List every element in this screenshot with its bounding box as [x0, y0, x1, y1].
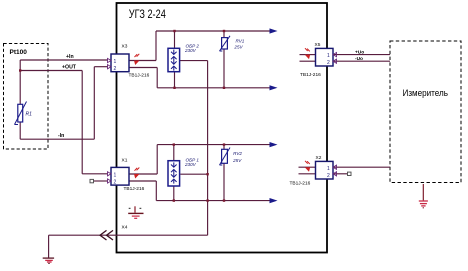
wire X2 pin1 to instrument — [333, 166, 390, 168]
svg-text:Измеритель: Измеритель — [403, 88, 449, 98]
wire arrester F1 bottom stub — [174, 72, 176, 88]
terminal pad X2 pin2 — [348, 172, 352, 175]
connector X3 — [108, 54, 130, 72]
junction node F2 bottom — [173, 199, 175, 201]
wire RV1 top stub — [223, 31, 225, 38]
wire ground bus vertical — [207, 61, 209, 236]
wire instrument ground stub — [422, 184, 424, 200]
wire X5 pin2 left stub — [300, 60, 316, 62]
net arrow out net2 — [270, 85, 278, 90]
svg-text:-Uo: -Uo — [355, 56, 363, 62]
svg-text:230V: 230V — [184, 48, 197, 53]
instrument dashed box Измеритель — [390, 41, 461, 183]
wire -In horizontal — [20, 138, 94, 140]
wire RV1 bottom stub — [223, 49, 225, 88]
arrester F2 ОБР1 — [168, 161, 180, 186]
svg-text:Х1: Х1 — [122, 158, 128, 164]
junction node F1 top — [173, 30, 175, 32]
svg-text:R1: R1 — [26, 112, 33, 118]
svg-text:RV2: RV2 — [233, 151, 242, 156]
svg-text:+In: +In — [66, 54, 74, 60]
svg-text:TB1J-216: TB1J-216 — [290, 181, 311, 187]
wire X3 pin1 out — [129, 60, 156, 62]
wire +OUT vertical — [81, 71, 83, 174]
wire X1 pin1 out — [129, 173, 157, 175]
svg-text:Pt100: Pt100 — [10, 49, 28, 56]
resistor R1 (Pt100 RTD) — [15, 102, 27, 125]
svg-text:1: 1 — [114, 172, 117, 178]
junction node F2 top — [173, 143, 175, 145]
varistor RV2 — [220, 148, 231, 166]
connector X1 — [108, 167, 130, 185]
wire net4 horizontal — [156, 200, 270, 202]
wire ground bus bottom horizontal — [49, 234, 208, 236]
wire X1 pin2 out — [129, 180, 156, 182]
wire net3 vertical — [156, 145, 158, 174]
wire X5 pin1 left stub — [300, 54, 316, 56]
svg-text:RV1: RV1 — [236, 39, 245, 44]
junction node RV1 top — [223, 30, 225, 32]
sensor dashed box Pt100 — [4, 44, 49, 150]
wire +OUT to X1 pin1 — [82, 173, 108, 175]
wire +OUT horizontal — [20, 70, 82, 72]
svg-text:+Uo: +Uo — [355, 49, 364, 55]
wire net4 vertical — [155, 181, 157, 201]
wire net2 vertical — [156, 68, 158, 88]
net arrow out net4 — [270, 198, 278, 203]
svg-text:230V: 230V — [184, 162, 197, 167]
wire X2 pin2 stub to pad — [333, 173, 348, 175]
junction node ground bus net4 — [206, 199, 208, 201]
svg-text:Х4: Х4 — [122, 225, 128, 231]
svg-text:2: 2 — [114, 179, 117, 185]
red marker X5 — [305, 48, 311, 59]
svg-text:2: 2 — [327, 173, 330, 179]
wire X3 pin2 out — [129, 67, 157, 69]
wire RV2 bottom stub — [223, 163, 225, 200]
ground instrument — [419, 201, 428, 208]
svg-text:1: 1 — [327, 53, 330, 59]
ground internal near X4 — [128, 206, 143, 218]
wire X5 pin2 to instrument — [333, 60, 390, 62]
wire arrester F2 top stub — [173, 145, 175, 161]
junction node RV1 bottom — [223, 87, 225, 89]
svg-text:1: 1 — [327, 166, 330, 172]
wire -In vertical up — [93, 67, 95, 140]
svg-text:УГЗ 2-24: УГЗ 2-24 — [129, 8, 166, 21]
red marker X2 — [305, 161, 311, 172]
wire arrester F2 bottom stub — [173, 186, 175, 201]
svg-text:TB1J-216: TB1J-216 — [300, 72, 321, 78]
red marker X1 — [134, 168, 140, 179]
svg-text:2: 2 — [114, 66, 117, 72]
svg-text:1: 1 — [114, 59, 117, 65]
wire X2 pin2 left stub — [299, 173, 316, 175]
net arrow out net1 — [270, 28, 278, 33]
junction node F1 bottom — [173, 87, 175, 89]
varistor RV1 — [220, 36, 231, 51]
connector X5 — [316, 48, 337, 66]
wire ground drop outside — [48, 235, 50, 257]
arrester F1 ОБР2 — [168, 48, 180, 71]
connector X2 — [316, 161, 337, 179]
svg-text:TB1J-216: TB1J-216 — [124, 186, 145, 192]
svg-text:-In: -In — [58, 133, 64, 139]
svg-text:2: 2 — [327, 60, 330, 66]
wire net1 vertical — [155, 31, 157, 61]
cable marker chevrons X4 — [100, 230, 113, 240]
enclosure box УГЗ 2-24 — [117, 3, 328, 253]
wire net3 horizontal — [157, 144, 270, 146]
ground outside bottom-left — [43, 258, 54, 263]
wire -In to X3 pin2 — [94, 66, 108, 68]
junction node RV2 top — [223, 143, 225, 145]
junction node F2 mid tee — [206, 173, 208, 175]
svg-text:Х5: Х5 — [315, 42, 321, 48]
svg-text:+OUT: +OUT — [62, 65, 77, 71]
junction node RV2 bottom — [223, 199, 225, 201]
wire F1 mid electrode — [180, 60, 208, 62]
svg-text:Х2: Х2 — [316, 155, 322, 161]
wire -In vertical R1 bottom — [19, 122, 21, 139]
wire X2 pin1 left stub — [299, 166, 316, 168]
wire +In horizontal to X3 pin1 — [20, 59, 108, 61]
svg-text:25V: 25V — [232, 158, 242, 163]
svg-text:TB1J-216: TB1J-216 — [129, 73, 150, 79]
wire +In vertical R1 top — [19, 60, 21, 104]
red marker X3 — [134, 54, 140, 65]
wire F2 mid electrode — [180, 173, 207, 175]
svg-text:25V: 25V — [233, 45, 243, 50]
svg-text:Х3: Х3 — [122, 44, 128, 50]
net arrow out net3 — [270, 142, 278, 147]
terminal pad X1 pin2 — [90, 179, 94, 182]
wire RV2 top stub — [223, 145, 225, 150]
wire X5 pin1 to instrument — [333, 54, 390, 56]
wire arrester F1 top stub — [174, 31, 176, 48]
junction node +OUT tee — [19, 69, 21, 71]
wire net1 horizontal — [156, 30, 270, 32]
wire X1 pin2 stub — [94, 180, 109, 182]
wire net2 horizontal — [157, 87, 270, 89]
